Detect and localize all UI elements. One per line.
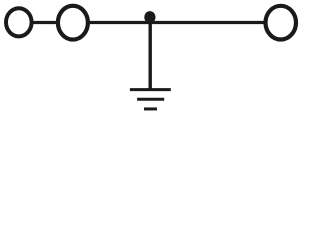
wire (33, 21, 58, 24)
terminal point (right clamping point) (266, 6, 297, 40)
wire (89, 21, 265, 24)
terminal point (second clamping point) (58, 6, 88, 40)
wire (stem to ground) (148, 20, 151, 90)
terminal point (left clamping point) (6, 8, 32, 36)
node junction dot (144, 11, 155, 23)
ground (130, 90, 171, 109)
